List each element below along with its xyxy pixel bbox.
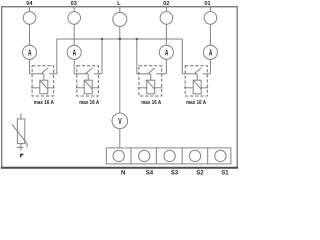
svg-text:04: 04 xyxy=(26,1,33,7)
svg-text:V: V xyxy=(118,118,122,126)
svg-text:max 16 A: max 16 A xyxy=(186,100,206,106)
svg-text:max 16 A: max 16 A xyxy=(141,100,161,106)
svg-text:A: A xyxy=(73,49,77,57)
svg-text:N: N xyxy=(121,170,125,176)
svg-text:S3: S3 xyxy=(171,170,179,176)
svg-text:A: A xyxy=(165,49,169,57)
svg-text:S4: S4 xyxy=(146,170,154,176)
svg-text:max 16 A: max 16 A xyxy=(79,100,99,106)
svg-text:L: L xyxy=(117,1,121,7)
svg-text:A: A xyxy=(28,49,32,57)
svg-text:02: 02 xyxy=(163,1,169,7)
svg-text:max 16 A: max 16 A xyxy=(34,100,54,106)
svg-text:03: 03 xyxy=(71,1,77,7)
svg-text:A: A xyxy=(209,49,213,57)
svg-text:01: 01 xyxy=(204,1,210,7)
svg-text:S1: S1 xyxy=(221,170,229,176)
svg-text:S2: S2 xyxy=(196,170,204,176)
